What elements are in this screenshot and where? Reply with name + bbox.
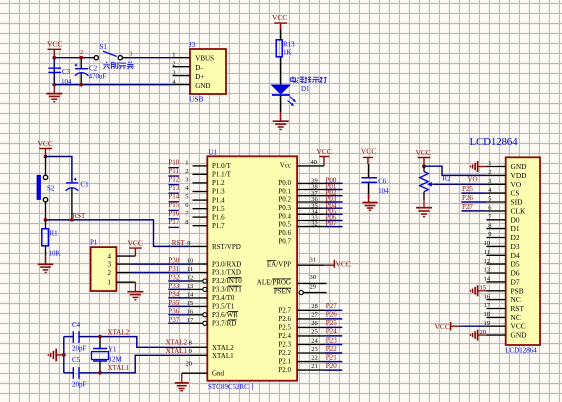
- capacitor C1 (electrolytic): [66, 178, 79, 191]
- svg-text:D1: D1: [301, 85, 310, 93]
- svg-text:S1: S1: [100, 43, 108, 51]
- svg-text:20pF: 20pF: [72, 345, 87, 353]
- svg-text:P34: P34: [168, 290, 179, 298]
- ground (LCD pin20, sideways): [471, 330, 487, 341]
- svg-text:P16: P16: [168, 210, 179, 218]
- svg-text:1: 1: [185, 159, 188, 166]
- svg-text:NC: NC: [511, 295, 521, 304]
- svg-text:P25: P25: [462, 185, 473, 193]
- U1 pin names P3.x: [212, 260, 242, 327]
- svg-text:D+: D+: [195, 73, 204, 81]
- svg-text:2: 2: [488, 169, 491, 176]
- wire R13 to LED: [280, 57, 282, 85]
- capacitor C4: [73, 331, 79, 343]
- wire R2 wiper to LCD VO (pin3): [434, 183, 487, 185]
- svg-text:2: 2: [80, 49, 83, 56]
- U1 pin 30 ALE: [297, 282, 327, 284]
- net labels P27-P20: [326, 302, 337, 370]
- svg-text:ALE/PROG: ALE/PROG: [257, 279, 291, 287]
- svg-text:P1.2: P1.2: [212, 179, 225, 187]
- svg-text:P26: P26: [462, 194, 473, 202]
- svg-text:2: 2: [108, 269, 112, 277]
- net labels P00-P07: [326, 177, 337, 228]
- svg-text:D7: D7: [511, 277, 520, 286]
- svg-text:3: 3: [108, 260, 112, 268]
- svg-text:13: 13: [187, 283, 194, 290]
- svg-text:24: 24: [311, 337, 318, 344]
- svg-text:P1.0/T: P1.0/T: [212, 162, 232, 170]
- svg-text:9: 9: [189, 348, 192, 355]
- svg-text:VCC: VCC: [272, 13, 287, 22]
- power port VCC (LED column): [274, 23, 287, 29]
- svg-text:10: 10: [187, 258, 194, 265]
- pin numbers 10-17: [187, 258, 194, 324]
- P1 pin 2: [116, 272, 131, 274]
- svg-text:25: 25: [311, 329, 318, 336]
- svg-text:12: 12: [484, 258, 491, 265]
- resistor R1: [42, 229, 49, 246]
- wire XTAL1 bottom net: [64, 355, 190, 373]
- potentiometer R2: [423, 166, 425, 171]
- connector P1: [91, 247, 117, 291]
- J3 pin 3: [173, 75, 191, 77]
- svg-text:C2: C2: [89, 65, 98, 73]
- svg-text:P13: P13: [168, 184, 179, 192]
- svg-text:P0.6: P0.6: [278, 229, 291, 237]
- ground (below C3): [46, 85, 62, 102]
- svg-text:P2.7: P2.7: [278, 306, 291, 314]
- svg-text:VDD: VDD: [511, 171, 528, 180]
- svg-text:17: 17: [187, 317, 194, 324]
- svg-text:P11: P11: [168, 167, 179, 175]
- junction node R2/VDD: [422, 164, 426, 168]
- svg-text:31: 31: [310, 256, 317, 263]
- svg-text:RST: RST: [73, 212, 87, 220]
- svg-text:VBUS: VBUS: [195, 55, 214, 63]
- U1 pin 20 Gnd: [182, 372, 208, 374]
- svg-text:P21: P21: [326, 353, 337, 361]
- net labels P10-P17: [168, 158, 179, 226]
- svg-text:14: 14: [484, 276, 491, 283]
- IC U1 box: [207, 156, 297, 380]
- svg-text:P1.6: P1.6: [212, 213, 225, 221]
- svg-text:104: 104: [61, 78, 72, 86]
- svg-text:8: 8: [488, 222, 491, 229]
- svg-text:VCC: VCC: [361, 147, 376, 156]
- svg-text:P1.4: P1.4: [212, 196, 225, 204]
- LCD pin names: [511, 162, 528, 340]
- svg-text:CS: CS: [511, 189, 520, 198]
- ground (LCD pin15 PSB, sideways): [471, 285, 487, 296]
- svg-text:15: 15: [187, 300, 194, 307]
- svg-text:XTAL1: XTAL1: [212, 352, 234, 360]
- svg-text:P1: P1: [90, 239, 98, 247]
- ground (R2): [416, 199, 432, 217]
- svg-text:P27: P27: [462, 203, 473, 211]
- svg-text:8: 8: [185, 219, 188, 226]
- svg-text:3: 3: [172, 69, 175, 76]
- power port VCC (U1 pin40): [319, 157, 329, 166]
- svg-text:3: 3: [185, 176, 188, 183]
- svg-text:D3: D3: [511, 242, 520, 251]
- svg-text:470uF: 470uF: [89, 73, 107, 81]
- svg-text:P0.1: P0.1: [278, 187, 291, 195]
- connector J3 (USB): [190, 49, 226, 94]
- power port VCC (EA, sideways): [325, 260, 335, 268]
- wire top net (VCC to switch): [54, 57, 89, 59]
- svg-text:VO: VO: [511, 180, 522, 189]
- U1 right pins 39-32 P0.x: [297, 183, 325, 226]
- wire P25 stub (CS): [461, 192, 486, 194]
- inversion bubbles pins 12,13,16,17: [203, 279, 207, 283]
- svg-text:XTAL1: XTAL1: [108, 364, 130, 372]
- U1 left pins 10-17 (P3.x) wires: [168, 281, 190, 323]
- svg-text:R1: R1: [50, 230, 59, 238]
- svg-text:R13: R13: [283, 40, 295, 48]
- U1 right pin 40 Vcc: [297, 165, 324, 167]
- svg-text:P3.5/T1: P3.5/T1: [212, 303, 235, 311]
- svg-text:1: 1: [172, 52, 175, 59]
- wire P1 pin2 to U1 P3.1: [131, 272, 190, 274]
- svg-text:U1: U1: [209, 148, 218, 156]
- wire S2 to RST net: [45, 202, 47, 220]
- svg-text:P24: P24: [326, 328, 337, 336]
- svg-text:22: 22: [311, 354, 318, 361]
- J3 pin 2: [173, 66, 191, 68]
- svg-text:P12: P12: [168, 175, 179, 183]
- svg-text:C5: C5: [72, 356, 81, 364]
- svg-text:VCC: VCC: [128, 238, 143, 247]
- svg-text:P36: P36: [168, 307, 179, 315]
- LCD pin numbers: [480, 160, 493, 336]
- svg-text:P35: P35: [168, 299, 179, 307]
- svg-text:11: 11: [484, 249, 490, 256]
- svg-text:Vcc: Vcc: [280, 162, 291, 170]
- svg-text:GND: GND: [511, 331, 528, 340]
- svg-text:S2: S2: [47, 184, 55, 192]
- svg-text:STC89C52RC: STC89C52RC: [208, 383, 249, 391]
- svg-text:17: 17: [484, 302, 491, 309]
- svg-text:104: 104: [378, 187, 389, 195]
- capacitor C2 (electrolytic 470uF): [75, 64, 89, 76]
- ground (U1 pin20): [175, 373, 189, 391]
- svg-text:3: 3: [488, 178, 491, 185]
- crystal Y1: [99, 337, 101, 373]
- svg-text:P2.0: P2.0: [278, 366, 291, 374]
- svg-text:P0.5: P0.5: [278, 221, 291, 229]
- svg-text:D1: D1: [511, 224, 520, 233]
- svg-text:USB: USB: [189, 94, 204, 103]
- svg-text:P0.7: P0.7: [278, 238, 291, 246]
- svg-text:P23: P23: [326, 336, 337, 344]
- svg-text:R2: R2: [443, 175, 452, 183]
- svg-text:EA/VPP: EA/VPP: [267, 260, 291, 268]
- power port VCC (C6): [363, 157, 373, 164]
- svg-text:VCC: VCC: [317, 147, 332, 156]
- svg-text:P0.2: P0.2: [278, 196, 291, 204]
- J3 pin 1: [173, 57, 191, 59]
- wire VCC to LCD VDD (pin2): [424, 166, 486, 175]
- svg-text:C4: C4: [72, 321, 81, 329]
- svg-text:P15: P15: [168, 201, 179, 209]
- svg-text:9: 9: [488, 231, 491, 238]
- label (chinese) power indicator light: [290, 76, 327, 83]
- resistor R13: [276, 40, 282, 57]
- svg-text:2: 2: [172, 61, 175, 68]
- LED D1: [272, 85, 290, 94]
- net RST wire: [46, 220, 191, 247]
- svg-text:VCC: VCC: [435, 322, 450, 331]
- svg-text:C6: C6: [378, 177, 387, 185]
- U1 pin 29 PSEN: [303, 292, 326, 294]
- svg-text:P2.6: P2.6: [278, 315, 291, 323]
- wire XTAL2 top net: [64, 337, 190, 348]
- svg-text:23: 23: [311, 346, 318, 353]
- svg-text:9: 9: [187, 240, 190, 247]
- svg-text:P26: P26: [326, 311, 337, 319]
- svg-text:RST: RST: [172, 239, 186, 247]
- junction dots: [52, 56, 56, 60]
- svg-text:P1.7: P1.7: [212, 222, 225, 230]
- svg-text:21: 21: [311, 363, 318, 370]
- svg-text:D2: D2: [511, 233, 520, 242]
- svg-text:P31: P31: [168, 265, 179, 273]
- wire P26 stub (SID): [461, 201, 486, 203]
- svg-text:VCC: VCC: [511, 322, 526, 331]
- svg-text:D5: D5: [511, 260, 520, 269]
- junction dots crystal: [98, 335, 102, 339]
- svg-text:40: 40: [311, 159, 318, 166]
- svg-text:C3: C3: [62, 68, 71, 76]
- power port VCC (P1): [129, 248, 142, 256]
- U1 pin 31 EA/VPP: [297, 264, 325, 266]
- svg-text:PSEN: PSEN: [274, 288, 291, 296]
- svg-text:5: 5: [185, 194, 188, 201]
- svg-text:12: 12: [187, 275, 194, 282]
- svg-text:12M: 12M: [109, 355, 123, 363]
- svg-text:D4: D4: [511, 251, 520, 260]
- U1 pins 18,19 XTAL: [190, 347, 207, 355]
- svg-text:P1.5: P1.5: [212, 205, 225, 213]
- svg-text:P2.3: P2.3: [278, 341, 291, 349]
- wire P27 stub (CLK): [461, 210, 486, 212]
- power port VCC (top-left): [48, 49, 62, 57]
- ground (R1): [38, 255, 54, 272]
- svg-text:P3.0/RXD: P3.0/RXD: [212, 260, 241, 268]
- svg-text:P2.5: P2.5: [278, 324, 291, 332]
- svg-text:28: 28: [311, 303, 318, 310]
- svg-text:26: 26: [311, 320, 318, 327]
- svg-text:VCC: VCC: [38, 139, 53, 148]
- label (chinese) six-pin switch: [103, 62, 134, 70]
- capacitor C5: [73, 367, 79, 379]
- svg-text:P10: P10: [168, 158, 179, 166]
- svg-text:P17: P17: [168, 218, 179, 226]
- svg-text:C1: C1: [81, 181, 90, 189]
- svg-text:1K: 1K: [283, 49, 292, 57]
- svg-text:Gnd: Gnd: [212, 370, 225, 378]
- svg-text:10: 10: [484, 240, 491, 247]
- ground (LED): [273, 112, 289, 130]
- P1 pin 1: [116, 281, 135, 283]
- wire RST to R1: [45, 220, 47, 229]
- P1 pin 4: [116, 255, 135, 257]
- capacitor C3: [48, 68, 61, 72]
- capacitor C6: [368, 164, 370, 178]
- svg-text:16: 16: [484, 293, 491, 300]
- J3 pin 4: [173, 84, 191, 86]
- wire VCC junction to C1 branch: [46, 157, 72, 183]
- svg-text:NC: NC: [511, 313, 521, 322]
- power port VCC (LCD pin19, sideways): [451, 322, 461, 331]
- svg-text:P3.4/T0: P3.4/T0: [212, 294, 235, 302]
- svg-text:P27: P27: [326, 302, 337, 310]
- svg-text:VCC: VCC: [47, 39, 62, 48]
- svg-text:GND: GND: [511, 162, 528, 171]
- svg-text:P32: P32: [168, 274, 179, 282]
- svg-text:VCC: VCC: [416, 148, 431, 157]
- svg-text:XTAL2: XTAL2: [212, 344, 234, 352]
- wire P1 pin3 to U1 P3.0: [131, 263, 190, 265]
- svg-text:P3.1/TXD: P3.1/TXD: [212, 269, 241, 277]
- svg-text:PSB: PSB: [511, 286, 524, 295]
- svg-text:Y1: Y1: [108, 345, 117, 353]
- svg-text:10K: 10K: [49, 250, 61, 258]
- svg-text:1: 1: [130, 50, 133, 57]
- svg-text:P20: P20: [326, 362, 337, 370]
- svg-text:P22: P22: [326, 345, 337, 353]
- wire VCC to R13: [280, 29, 282, 40]
- U1 right pins 28-21 P2.x: [297, 310, 325, 370]
- svg-text:P2.1: P2.1: [278, 358, 291, 366]
- svg-text:11: 11: [187, 266, 193, 273]
- net labels P30-P37: [168, 257, 179, 324]
- wire left vertical: [63, 337, 65, 373]
- svg-text:14: 14: [187, 291, 194, 298]
- svg-text:P1.3: P1.3: [212, 188, 225, 196]
- svg-text:1: 1: [488, 160, 491, 167]
- LCD pin lines 1-20: [486, 167, 505, 336]
- svg-text:P1.1/T: P1.1/T: [212, 171, 232, 179]
- U1 pin 9 RST/VPD: [190, 245, 207, 247]
- svg-text:J3: J3: [189, 41, 196, 49]
- svg-text:D-: D-: [195, 64, 203, 72]
- U1 pin names P2.x: [278, 306, 291, 374]
- svg-text:P3.6/WR: P3.6/WR: [212, 311, 238, 319]
- svg-text:VCC: VCC: [336, 260, 351, 269]
- svg-text:16: 16: [187, 308, 194, 315]
- svg-text:20: 20: [186, 360, 193, 367]
- svg-text:XTAL2: XTAL2: [166, 339, 188, 347]
- svg-text:SID: SID: [511, 198, 524, 207]
- svg-text:13: 13: [484, 267, 491, 274]
- svg-text:VO: VO: [468, 175, 478, 183]
- switch S2 (push button): [43, 175, 47, 179]
- svg-text:P3.7/RD: P3.7/RD: [212, 320, 236, 328]
- svg-text:20pF: 20pF: [72, 380, 87, 388]
- connector LCD box: [506, 157, 540, 345]
- svg-text:29: 29: [310, 283, 317, 290]
- wire LED to ground: [280, 95, 282, 112]
- U1 pin names P1.x: [212, 162, 232, 230]
- wire switch to J3 pin1: [128, 57, 173, 59]
- ground (C6): [362, 194, 377, 210]
- svg-text:P14: P14: [168, 193, 179, 201]
- power port VCC (reset): [39, 149, 52, 157]
- wire VCC junction to S2: [45, 157, 47, 176]
- U1 pin names P0.x: [278, 179, 291, 246]
- switch S1: [89, 57, 128, 59]
- svg-text:P0.0: P0.0: [278, 179, 291, 187]
- svg-text:30: 30: [310, 274, 317, 281]
- U1 left pins 1-8 (P1.0-P1.7): [193, 166, 208, 226]
- junction node VCC/S2/C1: [44, 155, 48, 159]
- wire VCC to LCD pin19: [461, 325, 487, 327]
- svg-text:P3.2/INT0: P3.2/INT0: [212, 277, 242, 285]
- svg-text:P33: P33: [168, 282, 179, 290]
- svg-text:D0: D0: [511, 215, 520, 224]
- ground (P1 pin1): [127, 282, 143, 300]
- svg-text:CLK: CLK: [511, 206, 526, 215]
- wire bottom GND net: [54, 58, 172, 85]
- svg-text:D6: D6: [511, 269, 520, 278]
- svg-text:32: 32: [311, 221, 318, 228]
- svg-text:GND: GND: [195, 82, 210, 90]
- wire R1 to ground: [45, 246, 47, 264]
- svg-text:P07: P07: [326, 220, 337, 228]
- svg-text:P25: P25: [326, 319, 337, 327]
- svg-text:2: 2: [185, 168, 188, 175]
- ground (crystal, sideways): [48, 349, 64, 362]
- svg-text:1: 1: [108, 279, 112, 287]
- svg-text:P2.2: P2.2: [278, 349, 291, 357]
- svg-text:P0.4: P0.4: [278, 212, 291, 220]
- svg-text:RST: RST: [511, 304, 525, 313]
- ground (LCD pin1, sideways): [471, 161, 487, 172]
- svg-text:P3.3/INT1: P3.3/INT1: [212, 286, 242, 294]
- svg-text:P37: P37: [168, 316, 179, 324]
- svg-text:27: 27: [311, 312, 318, 319]
- svg-text:P30: P30: [168, 257, 179, 265]
- svg-text:8: 8: [189, 340, 192, 347]
- svg-text:5: 5: [488, 196, 491, 203]
- svg-text:LCD12864: LCD12864: [505, 346, 537, 354]
- svg-text:LCD12864: LCD12864: [470, 136, 519, 148]
- svg-text:4: 4: [108, 252, 112, 260]
- svg-text:XTAL2: XTAL2: [108, 329, 130, 337]
- svg-text:P0.3: P0.3: [278, 204, 291, 212]
- overlines INT0 INT1 WR RD: [228, 278, 242, 320]
- svg-text:18: 18: [484, 311, 491, 318]
- svg-text:RST/VPD: RST/VPD: [212, 243, 241, 251]
- svg-text:P2.4: P2.4: [278, 332, 291, 340]
- power port VCC (R2): [418, 158, 431, 167]
- P1 pin 3: [116, 263, 131, 265]
- svg-text:XTAL1: XTAL1: [166, 347, 188, 355]
